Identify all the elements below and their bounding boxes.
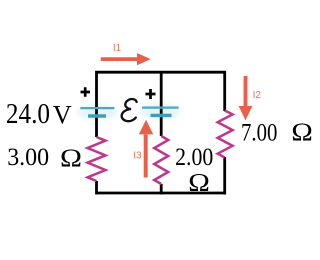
svg-text:Ω: Ω [60,143,82,172]
svg-text:24.0: 24.0 [6,98,50,130]
svg-text:7.00: 7.00 [241,119,277,148]
svg-text:I1: I1 [113,43,122,54]
svg-text:Ω: Ω [188,168,210,196]
svg-text:3.00: 3.00 [7,144,49,172]
svg-text:I2: I2 [253,90,262,101]
svg-text:V: V [53,100,72,129]
svg-text:Ω: Ω [291,117,312,145]
svg-text:I3: I3 [133,150,142,161]
